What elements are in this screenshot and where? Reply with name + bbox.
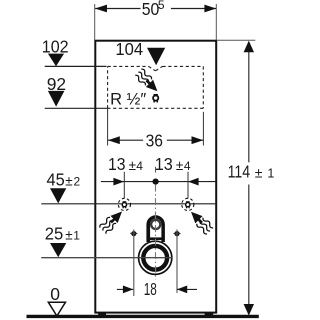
svg-text:102: 102 <box>42 36 69 56</box>
extension line to right tap <box>187 172 189 199</box>
dim 13±4: center dot <box>153 179 159 185</box>
floor line <box>27 315 259 318</box>
dim 13±4: dimension line <box>101 181 216 183</box>
svg-text:13: 13 <box>108 154 126 174</box>
level marker 102 (triangle) <box>48 54 64 67</box>
center line stub above dot <box>155 167 157 173</box>
dim 50^5: left arrowhead <box>95 5 107 13</box>
module outline <box>95 41 216 313</box>
right tap icon <box>185 202 191 209</box>
svg-text:4: 4 <box>136 159 143 173</box>
dim 50^5: right arrowhead <box>204 5 216 13</box>
water flow icon left <box>99 207 126 234</box>
stadium crossbar <box>147 237 165 240</box>
svg-text:25: 25 <box>45 223 64 243</box>
right dashed circle (water connection) <box>182 198 194 210</box>
water flow icon top <box>134 68 161 95</box>
left tap icon <box>121 202 127 209</box>
svg-text:13: 13 <box>155 154 173 174</box>
dim 36: right extension line <box>202 112 204 146</box>
svg-text:45: 45 <box>47 169 65 189</box>
svg-text:±: ± <box>255 164 263 180</box>
svg-text:50: 50 <box>142 0 160 19</box>
dim 13±4: left arrowhead <box>113 178 124 186</box>
dim 18: left line <box>117 288 133 290</box>
level line 25 <box>41 257 172 259</box>
svg-text:36: 36 <box>146 131 163 151</box>
svg-text:18: 18 <box>144 279 157 299</box>
dim 50^5: dimension line <box>95 8 140 10</box>
right bolt marker tick <box>173 232 180 234</box>
water flow icon right <box>187 208 214 235</box>
svg-text:104: 104 <box>115 39 143 59</box>
svg-text:R ½″: R ½″ <box>110 90 146 108</box>
dim 36: left arrowhead <box>108 136 120 144</box>
left foot <box>98 313 106 317</box>
svg-text:0: 0 <box>50 284 60 304</box>
level marker 25 (triangle) <box>50 243 66 257</box>
marker 104 (triangle) <box>147 48 165 66</box>
level marker 92 (triangle) <box>48 91 65 107</box>
svg-text:±: ± <box>65 173 72 188</box>
svg-text:1: 1 <box>267 166 274 180</box>
svg-text:2: 2 <box>74 174 81 188</box>
drain thick ring <box>143 246 167 270</box>
dim 18: left arrowhead <box>123 286 133 294</box>
level line 102 <box>45 65 107 67</box>
left bolt marker tick <box>130 232 137 234</box>
drain stadium inner (white) <box>150 219 161 242</box>
svg-text:4: 4 <box>184 159 191 173</box>
dim 50^5: left extension line <box>94 4 96 40</box>
center line (vertical dash-dot) <box>155 185 157 280</box>
right bolt marker dot <box>174 231 179 236</box>
svg-text:±: ± <box>129 158 136 173</box>
dim 114: top extension line <box>217 39 256 41</box>
right bolt marker line <box>176 230 178 294</box>
dim 18: right arrowhead <box>177 286 187 294</box>
drain outer circle <box>139 241 172 274</box>
level line 92 <box>45 107 108 109</box>
drain stadium outer (black) <box>146 215 165 242</box>
tap icon (supply) <box>152 94 159 102</box>
left dashed circle (water connection) <box>118 198 130 210</box>
dim 114: dimension line <box>248 52 250 163</box>
dim 18: right line <box>177 288 197 290</box>
left bolt marker line <box>133 230 135 297</box>
dim 13±4: right arrowhead <box>188 178 199 186</box>
level line 45 <box>41 203 216 205</box>
left bolt marker dot <box>131 231 136 236</box>
svg-text:5: 5 <box>158 0 165 12</box>
dim 36: left extension line <box>107 108 109 145</box>
small inlet ring <box>151 220 160 229</box>
dim 50^5: right extension line <box>215 4 217 40</box>
dim 114: up arrowhead <box>244 41 254 53</box>
datum 0 triangle <box>48 302 65 316</box>
svg-text:1: 1 <box>73 228 80 242</box>
dim 36: right arrowhead <box>192 136 204 144</box>
svg-text:±: ± <box>65 227 72 242</box>
right foot <box>205 313 214 317</box>
level line 25 over drain <box>41 257 172 259</box>
dim 114: down arrowhead <box>244 304 254 316</box>
dashed supply zone rectangle <box>108 66 204 108</box>
svg-text:±: ± <box>176 158 183 173</box>
dim 36: dimension line <box>108 139 143 141</box>
extension line to left tap <box>123 172 125 199</box>
level marker 45 (triangle) <box>50 188 66 203</box>
svg-text:114: 114 <box>228 161 251 181</box>
